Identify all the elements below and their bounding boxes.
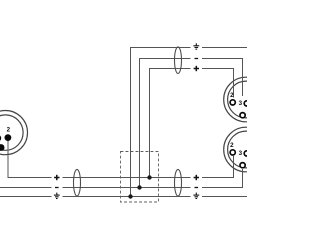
svg-text:2: 2	[7, 127, 11, 134]
svg-text:3: 3	[239, 100, 243, 107]
svg-text:2: 2	[230, 92, 234, 99]
svg-text:2: 2	[230, 142, 234, 149]
svg-text:3: 3	[239, 150, 243, 157]
